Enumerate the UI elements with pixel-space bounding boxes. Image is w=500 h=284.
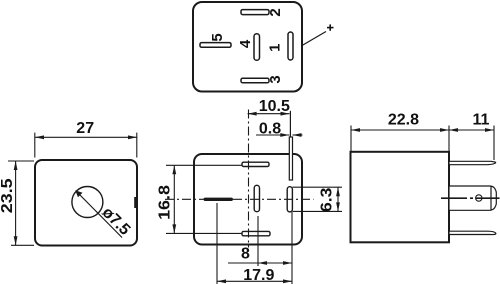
svg-text:5: 5 (209, 33, 226, 41)
svg-text:22.8: 22.8 (388, 112, 419, 129)
svg-text:6.3: 6.3 (317, 188, 335, 212)
svg-text:11: 11 (473, 112, 490, 129)
svg-text:8: 8 (241, 246, 250, 263)
svg-text:2: 2 (267, 8, 284, 16)
svg-text:27: 27 (76, 120, 94, 137)
svg-text:23.5: 23.5 (0, 178, 16, 213)
svg-text:4: 4 (237, 39, 254, 48)
svg-text:3: 3 (267, 75, 284, 83)
svg-text:1: 1 (267, 44, 284, 52)
svg-text:10.5: 10.5 (259, 98, 290, 115)
svg-text:16.8: 16.8 (156, 185, 174, 220)
